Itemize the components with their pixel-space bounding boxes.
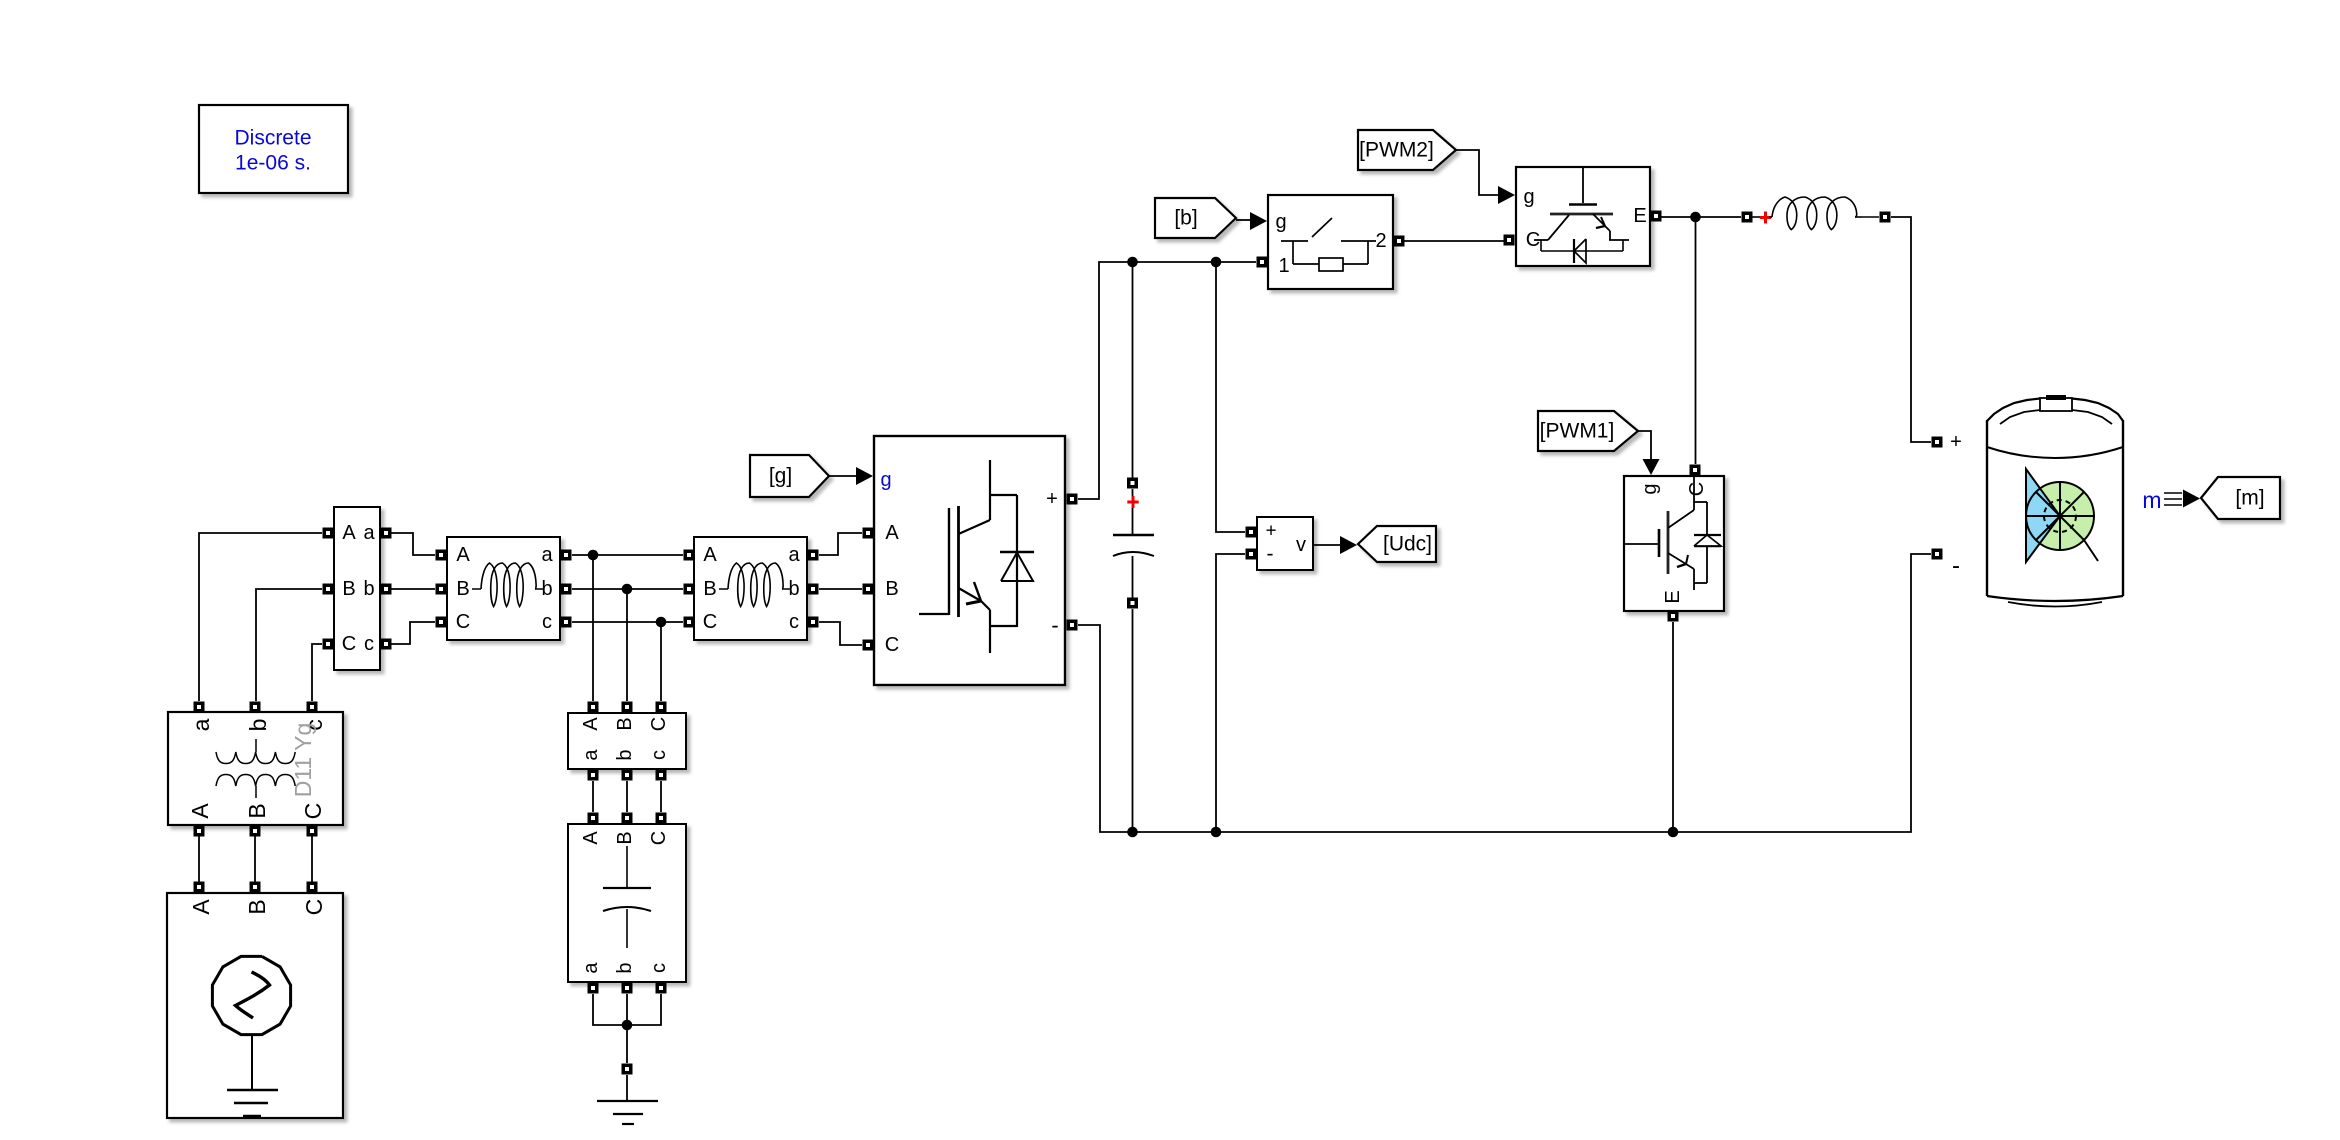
svg-text:c: c bbox=[542, 611, 552, 633]
node bus bottom Q2 bbox=[1668, 827, 1679, 838]
from tag [g] bbox=[750, 455, 829, 497]
three-phase transformer D11-Yg bbox=[168, 712, 343, 825]
svg-text:b: b bbox=[541, 578, 552, 600]
svg-text:[m]: [m] bbox=[2235, 487, 2264, 510]
three-phase V-I measurement block B2 bbox=[568, 713, 686, 769]
wire L2 b to bridge B bbox=[819, 588, 862, 590]
svg-text:+: + bbox=[1046, 488, 1058, 510]
svg-text:a: a bbox=[541, 544, 553, 566]
svg-text:c: c bbox=[648, 750, 670, 760]
wire source A to measurement bbox=[199, 533, 322, 701]
svg-text:C: C bbox=[456, 611, 470, 633]
svg-text:C: C bbox=[1686, 482, 1708, 496]
powergui block Discrete 1e-06 s. bbox=[199, 105, 348, 193]
svg-text:A: A bbox=[188, 899, 214, 915]
svg-text:C: C bbox=[648, 831, 670, 845]
wire Q2 E to bus bottom bbox=[1672, 622, 1674, 832]
series RLC branch L3 (smoothing inductor) bbox=[1752, 197, 1879, 230]
svg-text:a: a bbox=[188, 718, 214, 731]
three-phase series RLC branch L2 bbox=[694, 537, 807, 640]
svg-text:Discrete: Discrete bbox=[234, 127, 311, 150]
wire source B to measurement bbox=[256, 589, 322, 701]
DC link capacitor C1 bbox=[1113, 496, 1154, 556]
three-phase capacitor bank bbox=[568, 824, 686, 982]
svg-text:E: E bbox=[1633, 205, 1646, 227]
svg-text:g: g bbox=[1639, 483, 1661, 494]
svg-text:A: A bbox=[580, 717, 602, 731]
wire breaker out to Q1 C bbox=[1404, 240, 1504, 242]
svg-text:2: 2 bbox=[1375, 230, 1386, 252]
svg-text:c: c bbox=[364, 633, 374, 655]
three-phase programmable voltage source bbox=[167, 893, 343, 1118]
svg-text:1: 1 bbox=[1278, 255, 1289, 277]
IGBT/diode Q2 (rotated) bbox=[1624, 476, 1724, 611]
wire [b] to breaker gate bbox=[1236, 212, 1267, 230]
svg-text:[b]: [b] bbox=[1174, 207, 1197, 230]
wire Q1 E to inductor node bbox=[1661, 212, 1741, 223]
wire bridge + to DC bus top bbox=[1078, 262, 1256, 499]
svg-text:+: + bbox=[1950, 431, 1962, 453]
wire L1 c to L2 C, node bbox=[572, 617, 683, 701]
ground G1 bbox=[597, 1075, 658, 1124]
svg-text:c: c bbox=[648, 963, 670, 973]
svg-text:[PWM2]: [PWM2] bbox=[1359, 139, 1434, 162]
svg-text:C: C bbox=[342, 633, 356, 655]
svg-text:A: A bbox=[580, 831, 602, 845]
svg-text:C: C bbox=[648, 717, 670, 731]
wire transformer B to source bbox=[254, 831, 256, 887]
svg-text:D11 Yg: D11 Yg bbox=[290, 723, 316, 798]
svg-text:b: b bbox=[614, 962, 636, 973]
svg-text:c: c bbox=[789, 611, 799, 633]
from tag [PWM1] bbox=[1538, 411, 1638, 451]
battery m output to [m] bbox=[2142, 487, 2200, 513]
universal bridge (IGBT) U1 bbox=[874, 436, 1065, 685]
three-phase series RLC branch L1 bbox=[447, 537, 560, 640]
svg-text:B: B bbox=[456, 578, 469, 600]
svg-text:a: a bbox=[788, 544, 800, 566]
wire vmeas - to bus bottom bbox=[1216, 554, 1245, 832]
svg-text:B: B bbox=[885, 578, 898, 600]
wire DC capacitor branch bbox=[1132, 262, 1134, 832]
goto tag [Udc] bbox=[1358, 526, 1436, 562]
svg-text:a: a bbox=[363, 522, 375, 544]
wire L1 a to L2 A, node bbox=[572, 550, 683, 701]
wire L2 c to bridge C bbox=[819, 622, 862, 645]
wire [PWM1] to Q2 gate bbox=[1638, 431, 1660, 475]
svg-text:B: B bbox=[342, 578, 355, 600]
svg-text:g: g bbox=[1275, 211, 1286, 233]
wire source C to measurement bbox=[312, 644, 322, 701]
svg-text:a: a bbox=[580, 962, 602, 974]
from tag [PWM2] bbox=[1358, 130, 1456, 170]
svg-text:m: m bbox=[2142, 487, 2161, 513]
port markers bbox=[194, 211, 1943, 1075]
wire meas b to L1 B bbox=[386, 588, 435, 590]
battery terminal labels bbox=[1950, 431, 1962, 580]
from tag [b] bbox=[1155, 198, 1236, 238]
svg-text:C: C bbox=[300, 803, 326, 820]
node bus top capacitor bbox=[1127, 257, 1138, 268]
svg-text:B: B bbox=[614, 831, 636, 844]
wire meas c to L1 C bbox=[386, 622, 435, 644]
wire meas a to L1 A bbox=[386, 533, 435, 555]
svg-text:v: v bbox=[1296, 534, 1306, 556]
goto tag [m] bbox=[2201, 477, 2280, 519]
svg-text:g: g bbox=[880, 469, 891, 491]
wire L1 b to L2 B, node bbox=[572, 584, 683, 701]
wire [g] to bridge gate bbox=[829, 467, 873, 485]
wire transformer C to source bbox=[311, 831, 313, 887]
node bus bottom capacitor bbox=[1127, 827, 1138, 838]
three-phase V-I measurement block B1 bbox=[334, 507, 380, 670]
svg-text:b: b bbox=[363, 578, 374, 600]
wire [PWM2] to Q1 gate bbox=[1456, 150, 1515, 204]
node bus top vmeas bbox=[1211, 257, 1222, 268]
svg-text:b: b bbox=[614, 749, 636, 760]
svg-text:C: C bbox=[885, 634, 899, 656]
wire L2 a to bridge A bbox=[819, 533, 862, 555]
svg-text:b: b bbox=[788, 578, 799, 600]
svg-text:B: B bbox=[244, 899, 270, 914]
wire bus top to vmeas + bbox=[1216, 262, 1245, 532]
svg-text:C: C bbox=[301, 899, 327, 916]
svg-text:B: B bbox=[244, 803, 270, 818]
svg-text:A: A bbox=[187, 803, 213, 819]
svg-text:E: E bbox=[1662, 590, 1684, 603]
svg-text:[g]: [g] bbox=[769, 465, 792, 488]
svg-text:-: - bbox=[1267, 543, 1274, 566]
svg-text:-: - bbox=[1051, 613, 1058, 638]
battery bbox=[1987, 395, 2123, 607]
wire node to Q2 C bbox=[1695, 217, 1697, 464]
svg-text:+: + bbox=[1265, 521, 1276, 542]
svg-text:A: A bbox=[342, 522, 356, 544]
wire vmeas v to [Udc] bbox=[1313, 536, 1357, 554]
wire capacitor bank to ground node bbox=[593, 994, 661, 1063]
svg-text:-: - bbox=[1952, 553, 1960, 580]
IGBT/diode Q1 bbox=[1516, 167, 1650, 266]
wire meas B2 to capacitor bank bbox=[593, 781, 661, 812]
svg-text:[PWM1]: [PWM1] bbox=[1540, 420, 1615, 443]
svg-text:B: B bbox=[703, 578, 716, 600]
wire transformer A to source bbox=[198, 831, 200, 887]
svg-text:A: A bbox=[885, 522, 899, 544]
svg-text:a: a bbox=[580, 749, 602, 761]
voltage measurement Udc block bbox=[1257, 517, 1313, 570]
svg-text:A: A bbox=[703, 544, 717, 566]
wire bridge - to DC bus bottom bbox=[1078, 554, 1931, 832]
svg-text:[Udc]: [Udc] bbox=[1383, 533, 1432, 556]
wire L3 to battery + bbox=[1891, 217, 1931, 442]
svg-text:b: b bbox=[245, 719, 271, 732]
svg-text:C: C bbox=[703, 611, 717, 633]
svg-text:g: g bbox=[1523, 186, 1534, 208]
node bus bottom vmeas bbox=[1211, 827, 1222, 838]
svg-text:A: A bbox=[456, 544, 470, 566]
svg-text:B: B bbox=[614, 717, 636, 730]
svg-text:1e-06 s.: 1e-06 s. bbox=[235, 152, 311, 175]
breaker block bbox=[1268, 195, 1393, 289]
